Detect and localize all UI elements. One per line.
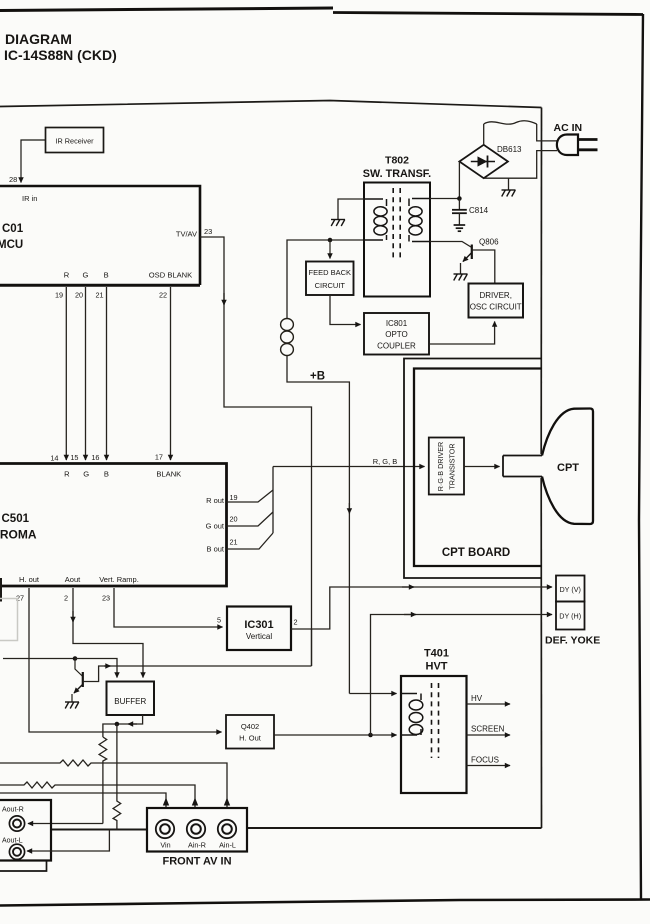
svg-text:28: 28 — [9, 175, 17, 184]
svg-text:16: 16 — [91, 453, 99, 462]
svg-text:B out: B out — [206, 545, 224, 554]
svg-text:DIAGRAM: DIAGRAM — [5, 31, 72, 47]
svg-text:BLANK: BLANK — [156, 470, 181, 479]
svg-text:2: 2 — [64, 594, 68, 603]
svg-text:H. out: H. out — [19, 575, 40, 584]
svg-text:IR in: IR in — [22, 194, 37, 203]
svg-text:TRANSISTOR: TRANSISTOR — [448, 443, 457, 489]
svg-text:DY (V): DY (V) — [559, 585, 580, 594]
svg-text:22: 22 — [159, 291, 167, 300]
svg-text:CPT: CPT — [557, 462, 579, 474]
svg-text:DRIVER,: DRIVER, — [479, 291, 511, 300]
svg-text:OSD BLANK: OSD BLANK — [149, 271, 192, 280]
svg-text:C01: C01 — [2, 223, 24, 235]
svg-text:BUFFER: BUFFER — [114, 697, 146, 706]
svg-text:MCU: MCU — [0, 239, 23, 251]
svg-text:Q806: Q806 — [479, 238, 499, 247]
svg-text:H. Out: H. Out — [239, 734, 262, 743]
svg-text:B: B — [104, 470, 109, 479]
svg-text:R out: R out — [206, 496, 225, 505]
svg-text:17: 17 — [155, 453, 163, 462]
svg-text:DY (H): DY (H) — [559, 612, 581, 621]
svg-text:FEED BACK: FEED BACK — [309, 268, 352, 277]
svg-text:C501: C501 — [2, 513, 30, 525]
svg-text:Q402: Q402 — [241, 722, 259, 731]
svg-text:14: 14 — [50, 454, 58, 463]
svg-text:CHROMA: CHROMA — [0, 528, 37, 542]
svg-text:COUPLER: COUPLER — [377, 342, 416, 351]
svg-text:Vert. Ramp.: Vert. Ramp. — [99, 575, 139, 584]
svg-text:IC-14S88N (CKD): IC-14S88N (CKD) — [4, 47, 117, 63]
svg-text:+B: +B — [310, 371, 325, 383]
svg-text:23: 23 — [102, 594, 110, 603]
svg-text:FOCUS: FOCUS — [471, 756, 499, 765]
svg-text:20: 20 — [230, 515, 238, 524]
svg-text:G: G — [83, 271, 89, 280]
svg-text:19: 19 — [55, 291, 63, 300]
svg-text:SCREEN: SCREEN — [471, 725, 505, 734]
svg-text:21: 21 — [230, 538, 238, 547]
svg-text:Vin: Vin — [160, 841, 170, 850]
svg-text:2: 2 — [294, 618, 298, 627]
svg-text:19: 19 — [230, 493, 238, 502]
svg-text:G out: G out — [206, 522, 225, 531]
svg-text:R, G, B: R, G, B — [373, 457, 398, 466]
svg-text:5: 5 — [217, 616, 221, 625]
svg-text:OSC CIRCUIT: OSC CIRCUIT — [470, 303, 522, 312]
svg-text:FRONT AV IN: FRONT AV IN — [162, 856, 231, 868]
svg-text:B: B — [104, 271, 109, 280]
svg-text:CIRCUIT: CIRCUIT — [315, 281, 346, 290]
svg-text:IC301: IC301 — [244, 619, 273, 631]
svg-text:20: 20 — [75, 291, 83, 300]
svg-text:T401: T401 — [424, 648, 449, 660]
svg-text:Aout: Aout — [65, 575, 81, 584]
svg-text:DEF. YOKE: DEF. YOKE — [545, 635, 600, 647]
svg-text:R: R — [64, 271, 70, 280]
svg-text:HVT: HVT — [426, 661, 448, 673]
svg-text:15: 15 — [70, 453, 78, 462]
svg-text:Ain-L: Ain-L — [219, 841, 236, 850]
svg-text:G: G — [83, 470, 89, 479]
svg-text:AC IN: AC IN — [554, 122, 583, 134]
svg-text:R: R — [64, 470, 70, 479]
svg-text:DB613: DB613 — [497, 145, 522, 154]
svg-text:CPT BOARD: CPT BOARD — [442, 547, 510, 559]
svg-text:Aout-L: Aout-L — [2, 838, 23, 845]
svg-text:21: 21 — [95, 291, 103, 300]
svg-text:Vertical: Vertical — [246, 632, 272, 641]
svg-text:R·G·B DRIVER: R·G·B DRIVER — [436, 442, 445, 492]
svg-text:OPTO: OPTO — [385, 330, 408, 339]
svg-text:IR Receiver: IR Receiver — [55, 137, 94, 146]
svg-text:SW. TRANSF.: SW. TRANSF. — [363, 168, 431, 180]
svg-text:TV/AV: TV/AV — [176, 230, 197, 239]
svg-text:HV: HV — [471, 694, 483, 703]
svg-text:Ain-R: Ain-R — [188, 841, 206, 850]
svg-text:C814: C814 — [469, 206, 489, 215]
svg-text:Aout-R: Aout-R — [2, 807, 24, 814]
svg-text:T802: T802 — [385, 155, 409, 167]
svg-text:IC801: IC801 — [386, 319, 408, 328]
svg-text:23: 23 — [204, 227, 212, 236]
